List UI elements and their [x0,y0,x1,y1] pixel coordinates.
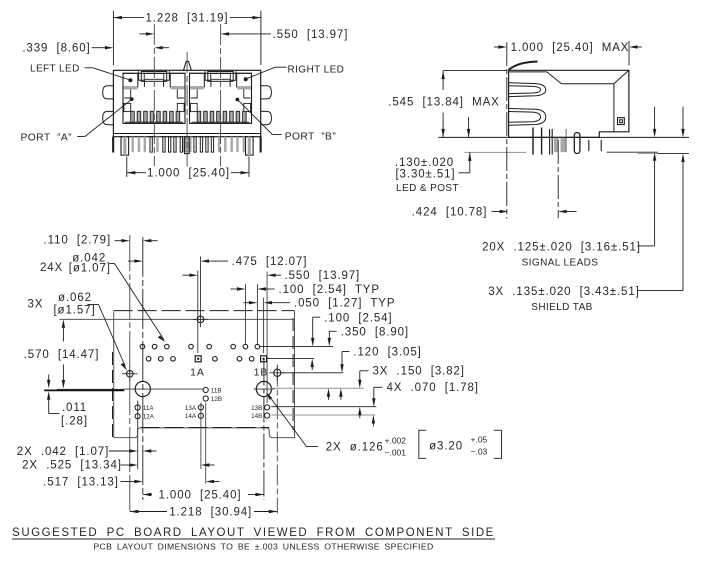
dimension .517 [13.13] [43,476,219,488]
subtitle: pcb layout dimensions note [93,542,433,552]
svg-text:[3.30±.51]: [3.30±.51] [395,169,455,181]
svg-text:14B: 14B [251,413,262,420]
svg-text:.100 [2.54] TYP: .100 [2.54] TYP [279,284,380,296]
label LEFT LED with leader [30,64,130,80]
svg-text:[.28]: [.28] [61,416,88,428]
ext line V1 left crosshair centerline [129,235,131,514]
ext line 1A column [197,271,199,353]
LED hole 14B [251,413,270,420]
dimension 1.000 [25.40] front [127,157,249,180]
dimension 1.000 [25.40] MAX side [494,41,642,218]
board edge thick line [44,389,124,390]
label 1B [254,367,269,379]
svg-text:2X .525 [13.34]: 2X .525 [13.34] [22,460,122,472]
svg-text:1A: 1A [190,366,205,378]
label PORT "A" with leader [21,100,132,144]
ext line 1B column [263,298,265,353]
pin 1B square pad [261,356,267,362]
svg-text:20X .125±.020 [3.16±.51]: 20X .125±.020 [3.16±.51] [482,241,641,253]
pcb outline dashed connector footprint [113,311,295,437]
ext line right crosshair centerline [276,366,278,514]
dimension .424 [10.78] [412,140,577,219]
dimension .339 [8.60] [22,43,169,55]
LED hole 13A [185,405,204,412]
ext line row1 hole column right [256,284,258,344]
svg-text:1.000 [25.40]: 1.000 [25.40] [147,168,230,180]
leader 3X .062 holes [28,292,128,370]
side view: board baseline [438,136,689,138]
ref line L2 row2 [267,358,314,360]
dimension .050 [1.27] TYP [244,298,396,310]
svg-text:.350 [8.90]: .350 [8.90] [341,326,409,338]
mounting hole A .126 [135,381,150,396]
side view: upper latch hook [509,83,546,97]
svg-text:11A: 11A [143,405,155,412]
front view: right EMI finger lower [261,111,272,124]
port A opening [123,71,185,123]
dimension 1.000 [25.40] pcb [143,489,264,501]
svg-text:[ø1.57]: [ø1.57] [53,305,95,317]
svg-text:1.000 [25.40]: 1.000 [25.40] [159,489,242,501]
svg-text:14A: 14A [185,413,197,420]
dimension 20X .125 SIGNAL LEADS [482,107,656,269]
dimension .100 [2.54] right [311,312,393,370]
side view: LED & POST tip line [465,151,527,153]
dimension .350 [8.90] [327,326,409,399]
svg-text:ø.062: ø.062 [58,292,92,304]
svg-text:2X ø.126: 2X ø.126 [326,442,384,454]
3X .062 crosshair hole top center [193,312,209,328]
ref line L6 14B row gray [271,414,375,416]
dimension 1.228 [31.19] [113,11,261,65]
front view: signal pin comb [132,137,246,152]
svg-text:SUGGESTED PC BOARD LAYOUT VIEW: SUGGESTED PC BOARD LAYOUT VIEWED FROM CO… [12,527,495,539]
svg-text:24X: 24X [40,262,63,274]
svg-text:.517 [13.13]: .517 [13.13] [43,476,119,488]
svg-text:12B: 12B [211,396,222,403]
svg-text:[ø1.07]: [ø1.07] [69,263,111,275]
24X signal holes row 1 [140,344,260,349]
svg-text:.339 [8.60]: .339 [8.60] [22,43,90,55]
svg-text:.050 [1.27] TYP: .050 [1.27] TYP [294,298,395,310]
front view: left EMI finger upper [103,86,114,99]
svg-text:.570 [14.47]: .570 [14.47] [24,349,100,361]
label 1A [190,366,205,378]
dimension .120 [3.05] [339,347,422,400]
ext line V2 mounting hole A centerline [142,237,144,500]
svg-text:+.05: +.05 [471,435,488,445]
dimension 1.218 [30.94] [130,507,277,519]
pin 1A square pad [195,356,201,362]
svg-text:.550 [13.97]: .550 [13.97] [285,270,361,282]
svg-text:RIGHT LED: RIGHT LED [288,65,345,76]
dimension .550 [13.97] pcb [183,270,361,282]
svg-text:SHIELD TAB: SHIELD TAB [531,302,592,313]
LED indicator dot port A left [128,78,132,82]
svg-text:ø3.20: ø3.20 [429,440,463,452]
front view: left wide mounting pin [121,137,129,155]
ext line 13B column [266,272,268,404]
3X .062 crosshair hole right [269,365,285,381]
dimension .545 [13.84] MAX [388,71,507,138]
ext line 11B column [205,403,207,484]
body centerline [186,52,188,167]
side view: shield tab tip line [638,152,690,154]
svg-text:.100 [2.54]: .100 [2.54] [324,312,392,324]
LED hole 13B [251,405,270,412]
svg-text:12A: 12A [143,414,155,421]
svg-text:SIGNAL LEADS: SIGNAL LEADS [522,257,599,268]
pcb datum line (.570 reference) [59,318,294,320]
ref line L4 hole row gray [271,387,364,389]
svg-text:13A: 13A [185,405,197,412]
front view: center shield slab pin [183,137,192,154]
svg-text:2X .042 [1.07]: 2X .042 [1.07] [17,446,109,458]
svg-text:.120 [3.05]: .120 [3.05] [353,347,421,359]
front view: right wide mounting pin [246,137,254,155]
svg-text:+.002: +.002 [385,436,407,446]
LED indicator dot port B right [244,77,248,81]
side view: signal lead tip line [607,151,658,153]
port B leader dot [236,98,240,102]
svg-text:−.001: −.001 [385,448,407,458]
svg-text:.011: .011 [62,402,87,414]
svg-text:PORT ”B”: PORT ”B” [285,132,337,143]
front view: left EMI finger lower [103,111,114,124]
front view: right EMI finger upper [261,86,272,99]
ref line L1 row1 [260,345,333,347]
dimension .110 [2.79] [44,234,158,246]
LED hole 12B [203,396,222,403]
svg-text:13B: 13B [251,405,262,412]
LED hole 12A [135,414,155,421]
side view: lower latch hook [509,109,546,126]
svg-text:1.228 [31.19]: 1.228 [31.19] [146,13,229,25]
3X .062 crosshair hole left [122,366,138,382]
svg-text:.550 [13.97]: .550 [13.97] [273,29,349,41]
ext line row1 hole column left [244,284,246,344]
front view: right edge shield tab pin [260,137,262,153]
svg-text:.545 [13.84] MAX: .545 [13.84] MAX [388,97,499,109]
dimension 2X .042 [1.07] [17,446,157,458]
hole centerline horizontal through hole A [124,388,203,390]
LED hole 11A [135,405,154,412]
port A leader dot [130,97,134,101]
port B opening [190,71,252,123]
front view: top latch trapezoid [184,61,192,70]
svg-text:3X .150 [3.82]: 3X .150 [3.82] [373,366,465,378]
dimension .570 [14.47] [24,319,100,388]
svg-text:−.03: −.03 [471,447,488,457]
svg-text:3X .135±.020 [3.43±.51]: 3X .135±.020 [3.43±.51] [488,286,640,298]
svg-text:3X: 3X [28,298,44,310]
svg-text:.424 [10.78]: .424 [10.78] [412,207,488,219]
side view: connector body outline [509,70,629,137]
dimension .130±.020 LED & POST [395,117,472,194]
front view: left edge shield tab pin [112,137,114,153]
label RIGHT LED with leader [247,65,345,79]
mounting hole B .126 [256,381,271,396]
leader 24X .042 holes [40,252,166,342]
svg-text:11B: 11B [211,387,222,394]
svg-text:PCB LAYOUT DIMENSIONS TO BE ±.: PCB LAYOUT DIMENSIONS TO BE ±.003 UNLESS… [93,542,433,552]
svg-text:.130±.020: .130±.020 [395,157,454,169]
dimension 2X .525 [13.34] [22,460,214,472]
hole B horizontal centerline [254,388,275,390]
pcb outline solid [114,311,295,438]
signal holes row 2 [146,357,254,362]
leader 2X .126 mounting holes [266,392,501,458]
dimension .011 [.28] [47,375,88,428]
side view: latch spring curve [509,62,538,70]
svg-text:PORT ”A”: PORT ”A” [21,132,73,143]
label PORT "B" with leader [238,100,336,142]
ext line top crosshair column [200,257,202,313]
svg-text:1.000 [25.40] MAX: 1.000 [25.40] MAX [511,42,630,54]
svg-text:4X .070 [1.78]: 4X .070 [1.78] [387,382,479,394]
dimension .550 [13.97] top [140,29,349,41]
dimension .100 [2.54] TYP [231,284,380,296]
svg-text:1B: 1B [254,367,269,379]
LED hole 11B [203,387,222,394]
ref line L3 crosshair row [282,372,344,374]
port A centerline [153,24,155,167]
svg-text:.475 [12.07]: .475 [12.07] [232,256,308,268]
svg-text:LED & POST: LED & POST [396,183,459,194]
svg-text:1.218 [30.94]: 1.218 [30.94] [169,507,252,519]
dimension 4X .070 [1.78] [372,382,479,426]
dimension .475 [12.07] [128,256,307,268]
ext line mounting hole B centerline [263,360,265,501]
dimension 3X .135 SHIELD TAB [488,107,684,313]
dimension 3X .150 [3.82] [358,366,465,419]
side view: small square detail [618,118,625,125]
ext line 13A column [200,403,202,470]
svg-text:LEFT LED: LEFT LED [30,64,80,75]
title: suggested pc board layout [12,527,495,539]
ref line L5 13B row [271,406,376,408]
ext line V3 hole 11A column [137,401,139,470]
LED hole 14A [185,413,204,420]
side view: pins [533,128,601,155]
front view: dual RJ45 jack body outline [113,70,260,136]
port B centerline [220,24,222,167]
svg-text:.110 [2.79]: .110 [2.79] [44,234,112,246]
